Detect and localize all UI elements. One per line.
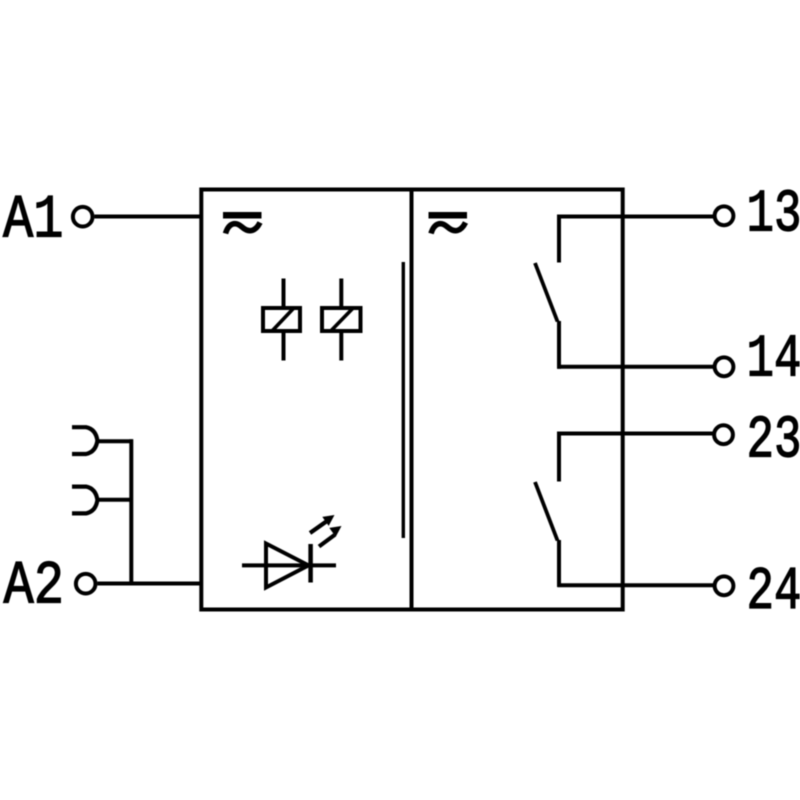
contact 13-14 top wire (558, 215, 714, 219)
coil K2 top stub (339, 279, 343, 307)
coil K2 rectangle (322, 308, 361, 331)
wire A1 to box (95, 215, 204, 219)
svg-text:13: 13 (747, 182, 800, 250)
contact 13-14 bottom wire (558, 365, 714, 369)
contact 23-24 lower stub (557, 540, 561, 587)
vertical bus wire to A2 (129, 439, 133, 583)
wire fork 1 to bus (97, 439, 134, 443)
divider between input and output section (410, 188, 414, 612)
coil K1 diagonal (272, 308, 294, 332)
isolation line (402, 262, 405, 538)
svg-text:A2: A2 (4, 553, 65, 622)
LED arrow 2 (319, 526, 342, 547)
AC/DC symbol right (tilde) (431, 223, 466, 234)
coil K2 diagonal (331, 308, 354, 332)
AC/DC symbol right (bar) (429, 212, 468, 219)
svg-text:23: 23 (747, 408, 800, 476)
wire A2 to box (98, 582, 204, 586)
terminal 13 circle (715, 206, 734, 225)
svg-text:24: 24 (747, 559, 800, 627)
coil K1 bottom stub (282, 333, 286, 361)
bridge connector fork 1 (72, 427, 97, 454)
terminal 24 circle (715, 576, 734, 595)
AC/DC symbol left (tilde) (226, 223, 261, 234)
contact 13-14 blade (535, 263, 558, 322)
AC/DC symbol left (bar) (223, 212, 262, 219)
svg-text:A1: A1 (3, 186, 64, 255)
svg-text:14: 14 (747, 326, 800, 394)
contact 23-24 bottom wire (558, 583, 714, 587)
terminal 23 circle (714, 425, 733, 444)
contact 13-14 lower stub (557, 321, 561, 369)
coil K1 rectangle (263, 308, 300, 331)
LED arrow 1 (310, 515, 335, 533)
LED cathode bar (308, 544, 313, 583)
relay module box outline (201, 190, 622, 610)
contact 13-14 upper stub (557, 215, 561, 263)
coil K2 bottom stub (339, 333, 343, 361)
contact 23-24 blade (535, 482, 558, 541)
contact 23-24 top wire (558, 432, 714, 436)
coil K1 top stub (282, 279, 286, 307)
terminal A2 circle (76, 574, 96, 594)
contact 23-24 upper stub (557, 432, 561, 482)
terminal 14 circle (715, 357, 734, 376)
LED axis wire (242, 563, 336, 567)
LED triangle (266, 544, 309, 588)
wire fork 2 to bus (97, 498, 134, 502)
terminal A1 circle (73, 207, 93, 227)
bridge connector fork 2 (72, 487, 97, 514)
